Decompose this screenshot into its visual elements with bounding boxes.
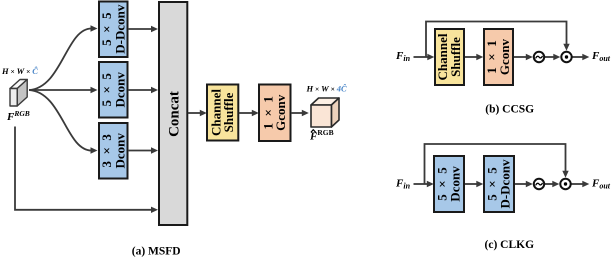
svg-text:Concat: Concat (167, 91, 183, 137)
svg-text:H × W × 4Ĉ: H × W × 4Ĉ (306, 84, 348, 94)
svg-text:(a) MSFD: (a) MSFD (132, 245, 181, 257)
svg-text:D-Dconv: D-Dconv (497, 159, 512, 209)
svg-text:Gconv: Gconv (497, 38, 512, 75)
svg-text:Dconv: Dconv (113, 133, 128, 169)
svg-text:H × W × Ĉ: H × W × Ĉ (1, 66, 38, 76)
svg-text:(c) CLKG: (c) CLKG (485, 239, 535, 251)
svg-text:Shuffle: Shuffle (448, 37, 463, 77)
svg-text:D-Dconv: D-Dconv (113, 4, 128, 54)
svg-text:Dconv: Dconv (113, 72, 128, 108)
svg-text:(b) CCSG: (b) CCSG (485, 104, 534, 116)
svg-text:Dconv: Dconv (447, 166, 462, 202)
svg-text:Shuffle: Shuffle (221, 92, 236, 132)
svg-text:Gconv: Gconv (273, 94, 288, 131)
